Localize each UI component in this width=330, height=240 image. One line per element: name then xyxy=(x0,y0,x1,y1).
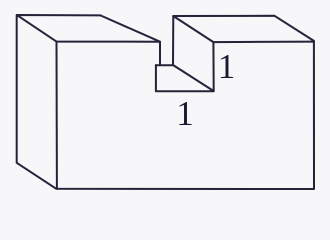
notch right wall top diagonal xyxy=(173,16,213,42)
svg-text:1: 1 xyxy=(218,47,236,86)
top-left depth diagonal xyxy=(17,15,57,41)
notch back vertical (from back top edge down) xyxy=(172,16,174,65)
notch inner shelf horizontal xyxy=(156,64,173,66)
front top edge right part xyxy=(213,41,314,44)
notch left wall top diagonal + notch front-left vertical xyxy=(101,16,160,65)
notch floor left vertical + floor front edge xyxy=(156,65,214,91)
notch floor depth diagonal xyxy=(173,65,214,91)
notch right vertical xyxy=(212,42,214,91)
outer silhouette: back top edge left, left vertical, bottom depth diagonal, bottom edge, right vertical, top-right depth diagonal, back top edge right xyxy=(17,15,314,189)
svg-text:1: 1 xyxy=(176,94,194,133)
front top edge left + front-left vertical xyxy=(57,42,161,189)
